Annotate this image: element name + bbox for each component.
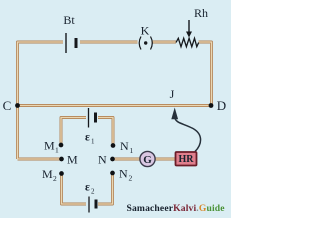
svg-text:M: M — [44, 139, 55, 153]
svg-text:M: M — [42, 167, 53, 181]
svg-text:SamacheerKalvi.Guide: SamacheerKalvi.Guide — [127, 203, 226, 214]
svg-text:N: N — [98, 153, 107, 167]
svg-text:G: G — [143, 154, 152, 166]
svg-text:2: 2 — [129, 174, 133, 183]
svg-text:2: 2 — [91, 188, 95, 196]
svg-text:ε: ε — [85, 182, 90, 194]
svg-text:K: K — [141, 24, 150, 38]
svg-text:ε: ε — [85, 132, 90, 144]
svg-text:Rh: Rh — [194, 6, 208, 20]
svg-text:J: J — [170, 87, 175, 101]
svg-text:C: C — [3, 98, 12, 113]
svg-text:N: N — [119, 167, 128, 181]
svg-text:1: 1 — [130, 146, 134, 155]
svg-text:HR: HR — [179, 154, 195, 165]
svg-text:D: D — [217, 98, 226, 113]
svg-text:2: 2 — [53, 174, 57, 183]
svg-text:M: M — [67, 153, 78, 167]
svg-text:Bt: Bt — [63, 13, 75, 27]
svg-text:1: 1 — [55, 146, 59, 155]
svg-text:1: 1 — [91, 138, 95, 146]
svg-text:N: N — [120, 139, 129, 153]
